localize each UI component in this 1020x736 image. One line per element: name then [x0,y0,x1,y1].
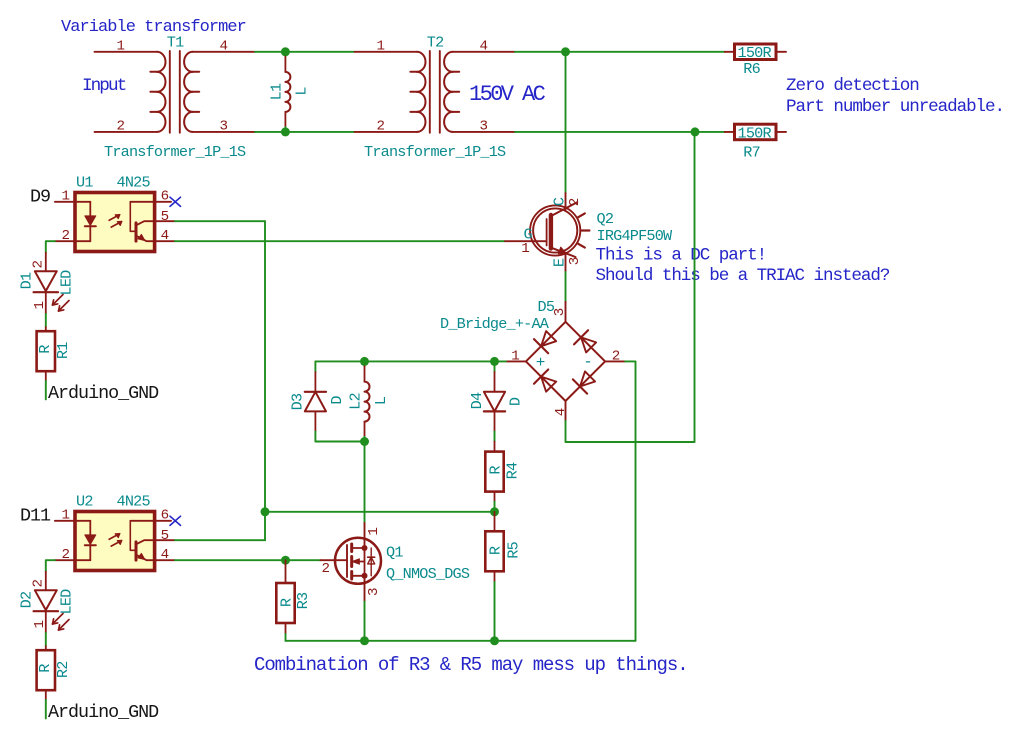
Q1 channel [350,544,353,552]
svg-text:D1: D1 [18,272,36,289]
bridge diode top-right [581,337,596,352]
svg-text:3: 3 [366,588,382,597]
wire U2 pin2 corner [46,560,55,572]
svg-text:3: 3 [567,257,583,266]
Q1 body diode [370,548,372,576]
bridge diode top-left [541,331,556,346]
svg-text:2: 2 [62,547,71,563]
svg-text:5: 5 [161,528,170,544]
svg-text:IRG4PF50W: IRG4PF50W [597,227,674,245]
bridge D5 pin3 lead [565,302,567,322]
LED D1 bottom lead [45,292,47,314]
wire pin1 T1 [95,51,157,53]
opto-coupler U2 [75,512,155,571]
svg-text:U2: U2 [76,493,93,511]
svg-text:Transformer_1P_1S: Transformer_1P_1S [104,143,246,161]
wire D3 top [314,361,316,372]
wire T1 pin4 [193,51,255,53]
wire to L1 top [255,51,285,53]
svg-text:Zero detection: Zero detection [786,76,919,96]
wire bridge pin2 down [625,361,635,640]
transistor Q1 circle [335,538,381,584]
svg-text:L: L [293,87,311,96]
LED D2 lead [45,572,47,591]
svg-text:2: 2 [31,579,47,588]
svg-text:D4: D4 [468,392,486,409]
bridge pin2 lead [605,360,625,362]
svg-text:4: 4 [161,228,170,244]
U2 pin5 [155,539,175,541]
svg-text:D2: D2 [18,591,36,608]
inductor L2 leads [364,361,366,366]
svg-text:Q1: Q1 [386,544,403,562]
Q2 collector line [552,202,578,216]
Q1 gate pin [321,559,348,561]
wire R5 bottom [494,582,496,641]
no-connect U2 pin6 [170,516,181,525]
svg-text:R3: R3 [294,592,312,609]
wire T2 pin3 [453,131,515,133]
wire to R7 [515,131,725,133]
junction R5 bottom [490,636,499,645]
svg-text:2: 2 [116,119,125,135]
wire U2 pin5 [175,539,265,541]
svg-text:1: 1 [62,188,71,204]
wire U1 pin4 to Q2 gate [175,240,505,242]
U2 pin2 [55,559,75,561]
Q2 gate pin [505,240,547,242]
svg-text:Variable transformer: Variable transformer [61,18,246,37]
Q1 source link [352,575,365,577]
wire D4 to R4 [494,432,496,442]
transistor Q2 circle [530,205,580,255]
svg-text:4N25: 4N25 [117,174,151,192]
wire L1 to T2 bottom [285,131,354,133]
svg-text:Should this be a TRIAC instead: Should this be a TRIAC instead? [596,266,890,286]
wire C net upper [565,52,567,193]
resistor R5 [494,512,496,532]
svg-text:4: 4 [161,547,170,563]
svg-text:R2: R2 [54,661,72,678]
wire U1 pin2 corner [46,241,55,253]
svg-text:R5: R5 [505,541,523,558]
svg-text:R: R [36,345,54,354]
svg-text:D11: D11 [20,505,51,526]
svg-text:6: 6 [161,188,170,204]
svg-text:R6: R6 [743,60,760,78]
svg-text:2: 2 [567,198,583,207]
no-connect U1 pin6 [170,197,181,206]
Q2 emitter line [552,248,576,257]
U1 pin6 [155,201,171,203]
wire L2 to Q1 drain [364,442,366,524]
svg-text:+: + [536,354,546,372]
svg-text:D3: D3 [289,393,307,410]
bridge diode bottom-right [580,371,595,386]
svg-text:R1: R1 [54,342,72,359]
svg-text:1: 1 [521,241,530,257]
bridge pin1 lead [506,360,526,362]
U2 pin6 [155,520,171,522]
Q1 substrate arrow [354,561,365,563]
U1 pin2 [55,240,75,242]
U1 pin5 [155,220,175,222]
opto-coupler U1 [75,193,155,252]
svg-text:1: 1 [62,507,71,523]
diode D3 leads [314,372,316,392]
wire T2 pin4 [453,51,515,53]
bridge pin4 lead [565,401,567,421]
Q1 drain link [352,547,365,549]
Q2 emitter arrow [558,247,566,254]
svg-text:L2: L2 [347,393,365,410]
wire D2 to R2 [45,633,47,646]
wire D1 to R1 [45,314,47,327]
bridge diode bottom-left [541,377,556,392]
svg-text:150R: 150R [738,124,772,142]
wire T2 pin2 [355,131,417,133]
Q2 collector pin [565,193,567,210]
junction bridge pin1 [490,357,499,366]
svg-text:2: 2 [62,228,71,244]
svg-text:D9: D9 [30,186,50,207]
wire T1 pin3 [193,131,255,133]
bridge D5 outline [526,322,605,401]
junction L2 top [360,357,369,366]
svg-text:R: R [36,664,54,673]
junction pin5 branch [261,507,270,516]
svg-text:LED: LED [58,589,76,615]
svg-text:-: - [583,353,593,371]
resistor R2 [45,646,47,650]
svg-text:2: 2 [31,260,47,269]
svg-text:LED: LED [58,270,76,296]
svg-text:1: 1 [376,38,385,54]
resistor R7 [725,131,735,133]
wire R3 bottom [285,634,287,641]
svg-text:T2: T2 [427,34,444,52]
svg-text:R: R [487,546,505,555]
LED D1 lead [45,253,47,272]
svg-text:Q2: Q2 [597,210,614,228]
svg-text:E: E [551,258,569,267]
LED D2 bottom lead [45,611,47,633]
inductor L1 leads [284,52,286,57]
diode D4 leads [494,372,496,392]
wire to L1 bottom [255,131,285,133]
wire U2 pin4 to Q1 gate [175,559,321,561]
svg-text:This is a DC part!: This is a DC part! [596,246,767,266]
svg-text:2: 2 [322,561,331,577]
LED D1 [35,271,57,291]
Q1 internal vertical [364,548,366,576]
U2 pin1 [55,520,75,522]
junction L2 bottom [360,437,369,446]
svg-text:Q_NMOS_DGS: Q_NMOS_DGS [386,565,470,583]
svg-text:L: L [372,396,390,405]
diode D4 [484,392,505,412]
svg-text:R7: R7 [743,144,760,162]
svg-text:R: R [278,598,296,607]
junction Q1 source [360,636,369,645]
wire bottom rail [286,640,636,642]
svg-text:L1: L1 [268,83,286,100]
wire R1 to gnd [45,381,47,399]
resistor R4 [494,442,496,452]
inductor L2 [365,382,370,422]
wire vertical net pin5 [264,221,266,540]
Q1 source pin [364,576,366,602]
diode D3 [305,392,326,412]
LED D2 [35,590,57,610]
svg-text:2: 2 [376,119,385,135]
svg-text:Input: Input [82,76,126,96]
Q1 gate bar [346,545,348,577]
U2 pin4 [155,559,175,561]
wire R4 to R5 [494,502,496,512]
junction node R7 branch [691,127,700,136]
wire D3 bottom [315,432,364,442]
Q2 case ticks [577,213,584,217]
Q2 gate bar [546,219,548,246]
svg-text:C: C [551,197,569,206]
svg-text:D_Bridge_+-AA: D_Bridge_+-AA [440,315,550,333]
svg-text:1: 1 [366,527,382,536]
svg-text:D: D [328,396,346,405]
wire pin5 branch [265,511,495,513]
wire rail to bridge [315,360,506,362]
resistor R1 [45,327,47,331]
junction L1 bottom [281,127,290,136]
wire L1 to T2 top [285,51,354,53]
Q1 drain pin [364,523,366,548]
svg-text:Part number unreadable.: Part number unreadable. [786,97,1004,117]
wire R2 to gnd [45,700,47,718]
svg-text:R4: R4 [504,462,522,479]
svg-text:3: 3 [552,308,568,317]
svg-text:Transformer_1P_1S: Transformer_1P_1S [364,143,506,161]
junction R4-R5 [490,507,499,516]
U1 pin4 [155,240,175,242]
wire T2 pin1 [355,51,417,53]
svg-text:4N25: 4N25 [117,493,151,511]
inductor L1 [285,72,290,112]
wire bridge pin4 down [566,132,695,442]
resistor R6 [725,51,735,53]
svg-text:1: 1 [116,38,125,54]
U1 pin1 [55,201,75,203]
wire to R6 [515,51,725,53]
Q2 emitter pin [565,253,567,272]
junction node C [561,47,570,56]
wire Q2 emitter to bridge [565,272,567,302]
svg-text:5: 5 [161,209,170,225]
junction L1 top [281,47,290,56]
Q2 body bar [549,215,553,249]
svg-text:D: D [507,397,525,406]
svg-text:R: R [487,466,505,475]
svg-text:150V AC: 150V AC [469,82,546,107]
wire Q1 source down [364,602,366,641]
svg-text:4: 4 [553,408,569,417]
wire D4 top [494,361,496,372]
junction R3 top [281,556,290,565]
svg-text:Arduino_GND: Arduino_GND [48,383,159,404]
svg-text:Combination of R3 & R5 may mes: Combination of R3 & R5 may mess up thing… [254,654,688,676]
wire U1 pin5 right [175,220,265,222]
svg-text:6: 6 [161,507,170,523]
transformer T2 [429,51,431,133]
resistor R3 [285,560,287,583]
wire pin2 T1 [95,131,157,133]
svg-text:U1: U1 [76,174,93,192]
svg-text:Arduino_GND: Arduino_GND [48,702,159,723]
transformer T1 [169,51,171,133]
